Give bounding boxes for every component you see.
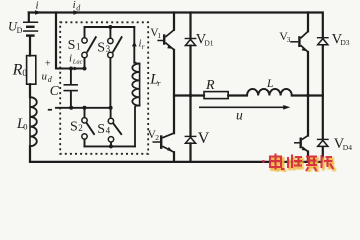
svg-text:3: 3 xyxy=(287,35,291,44)
svg-text:r: r xyxy=(157,78,161,88)
svg-text:2: 2 xyxy=(78,123,83,133)
svg-text:R: R xyxy=(205,78,215,93)
svg-text:S: S xyxy=(97,122,105,137)
svg-text:0: 0 xyxy=(23,122,27,132)
svg-text:V: V xyxy=(198,130,210,147)
svg-text:i: i xyxy=(69,52,72,64)
svg-text:D4: D4 xyxy=(343,143,352,152)
svg-text:4: 4 xyxy=(106,126,111,136)
svg-text:1: 1 xyxy=(76,41,81,51)
svg-text:S: S xyxy=(68,38,76,53)
svg-text:d: d xyxy=(76,4,81,13)
svg-text:3: 3 xyxy=(106,44,111,54)
svg-text:r: r xyxy=(142,42,145,51)
svg-text:2: 2 xyxy=(155,133,159,142)
svg-text:S: S xyxy=(97,40,105,55)
svg-text:u: u xyxy=(42,71,48,83)
svg-text:S: S xyxy=(70,119,78,134)
svg-text:D1: D1 xyxy=(204,38,213,47)
svg-text:u: u xyxy=(236,107,243,122)
svg-text:i: i xyxy=(36,0,39,12)
svg-text:L: L xyxy=(266,78,273,90)
svg-text:Lac: Lac xyxy=(72,58,83,65)
svg-text:R: R xyxy=(12,62,23,79)
svg-text:0: 0 xyxy=(22,68,27,78)
svg-text:1: 1 xyxy=(157,31,161,40)
svg-text:C: C xyxy=(50,83,60,98)
svg-text:D: D xyxy=(17,26,23,35)
svg-text:D3: D3 xyxy=(340,38,349,47)
svg-text:+: + xyxy=(45,58,51,69)
